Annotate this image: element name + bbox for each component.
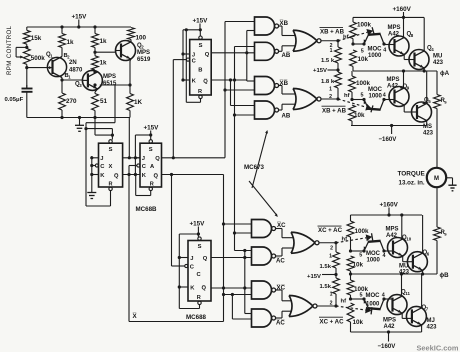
svg-text:M: M xyxy=(434,176,439,182)
svg-text:Q: Q xyxy=(155,156,160,162)
svg-text:4: 4 xyxy=(383,253,386,259)
svg-text:ϕA: ϕA xyxy=(440,70,450,77)
svg-text:Q̅: Q̅ xyxy=(203,78,208,85)
svg-text:+15V: +15V xyxy=(190,221,206,228)
svg-text:11: 11 xyxy=(405,291,410,296)
svg-text:J: J xyxy=(100,156,103,162)
svg-text:5: 5 xyxy=(361,93,364,99)
svg-text:hf: hf xyxy=(344,93,350,99)
svg-text:J: J xyxy=(190,256,193,262)
svg-text:MOC: MOC xyxy=(366,293,381,299)
svg-text:1000: 1000 xyxy=(366,302,380,308)
svg-text:500k: 500k xyxy=(31,55,46,62)
svg-text:s: s xyxy=(444,232,447,237)
svg-text:XC + AC: XC + AC xyxy=(318,227,343,234)
svg-text:C: C xyxy=(192,59,197,65)
svg-text:+15V: +15V xyxy=(72,14,88,21)
svg-text:5: 5 xyxy=(361,49,364,55)
svg-text:Q̅: Q̅ xyxy=(154,173,159,180)
svg-text:+15V: +15V xyxy=(307,274,321,280)
svg-text:K: K xyxy=(142,173,147,179)
svg-text:MPS: MPS xyxy=(137,50,150,56)
svg-text:Q: Q xyxy=(203,256,208,262)
svg-text:SeekIC.com: SeekIC.com xyxy=(417,344,459,352)
svg-text:C: C xyxy=(100,164,105,170)
svg-text:423: 423 xyxy=(433,60,444,66)
svg-text:MC688: MC688 xyxy=(186,314,207,321)
svg-text:1: 1 xyxy=(330,292,333,298)
svg-text:10k: 10k xyxy=(353,319,364,326)
svg-text:1K: 1K xyxy=(134,99,143,106)
svg-text:MS: MS xyxy=(423,124,432,130)
svg-text:S: S xyxy=(149,147,153,153)
svg-text:C: C xyxy=(197,272,202,278)
svg-text:s: s xyxy=(444,100,447,105)
svg-text:MPS: MPS xyxy=(387,77,400,83)
svg-text:K: K xyxy=(192,79,197,85)
svg-text:AB: AB xyxy=(282,113,291,120)
svg-text:8: 8 xyxy=(411,33,414,38)
svg-text:ϕB: ϕB xyxy=(440,272,450,279)
svg-text:R: R xyxy=(197,295,201,301)
svg-text:J: J xyxy=(192,52,195,58)
svg-text:2: 2 xyxy=(330,301,333,307)
svg-text:A42: A42 xyxy=(387,84,399,90)
svg-text:R: R xyxy=(109,181,113,187)
svg-text:A̅C: A̅C xyxy=(276,258,285,265)
svg-text:270: 270 xyxy=(66,98,77,105)
svg-text:2: 2 xyxy=(330,246,333,252)
svg-text:13.oz. in.: 13.oz. in. xyxy=(399,180,425,187)
svg-text:S: S xyxy=(198,244,202,250)
svg-text:10k: 10k xyxy=(354,112,365,119)
svg-text:B: B xyxy=(198,68,202,74)
svg-text:+15V: +15V xyxy=(144,125,160,132)
svg-text:MPS: MPS xyxy=(103,74,116,80)
svg-text:5: 5 xyxy=(428,99,431,104)
svg-text:X: X xyxy=(109,164,113,170)
svg-text:MPS: MPS xyxy=(383,318,396,324)
svg-text:MU: MU xyxy=(433,54,442,60)
svg-text:4: 4 xyxy=(382,293,385,299)
svg-text:RPM CONTROL: RPM CONTROL xyxy=(6,25,13,75)
svg-text:+160V: +160V xyxy=(380,202,399,209)
svg-text:TORQUE: TORQUE xyxy=(398,171,426,178)
svg-text:1.5 k: 1.5 k xyxy=(321,58,335,64)
svg-text:4: 4 xyxy=(431,47,434,52)
svg-text:4: 4 xyxy=(383,93,386,99)
svg-text:15k: 15k xyxy=(31,35,42,42)
svg-text:MOC: MOC xyxy=(366,251,381,257)
svg-text:MOC: MOC xyxy=(368,87,383,93)
svg-text:2: 2 xyxy=(141,45,144,50)
svg-text:K: K xyxy=(100,173,105,179)
svg-text:4: 4 xyxy=(383,48,386,54)
svg-text:hf: hf xyxy=(341,299,347,305)
svg-text:1k: 1k xyxy=(100,60,108,67)
svg-text:MPS: MPS xyxy=(388,25,401,31)
svg-text:423: 423 xyxy=(423,131,434,137)
svg-text:6: 6 xyxy=(427,252,430,257)
svg-text:C: C xyxy=(190,265,195,271)
svg-text:Q̅: Q̅ xyxy=(202,285,207,292)
svg-text:51: 51 xyxy=(100,98,108,105)
svg-text:100k: 100k xyxy=(357,22,372,29)
svg-text:423: 423 xyxy=(427,325,438,331)
svg-text:C: C xyxy=(142,164,147,170)
svg-text:5: 5 xyxy=(359,253,362,259)
svg-text:5: 5 xyxy=(360,293,363,299)
svg-text:10k: 10k xyxy=(353,262,364,269)
svg-text:XB + AB: XB + AB xyxy=(320,29,345,36)
svg-text:1.5k: 1.5k xyxy=(320,264,332,270)
svg-text:1000: 1000 xyxy=(367,258,381,264)
svg-text:+160V: +160V xyxy=(393,6,412,13)
svg-text:−160V: −160V xyxy=(378,343,397,350)
svg-text:K: K xyxy=(190,286,195,292)
svg-text:1: 1 xyxy=(329,87,332,93)
svg-text:4870: 4870 xyxy=(69,68,83,74)
svg-text:MC68B: MC68B xyxy=(136,206,158,213)
svg-text:XC + AC: XC + AC xyxy=(320,318,345,325)
svg-text:100k: 100k xyxy=(356,80,371,87)
svg-text:MJ: MJ xyxy=(427,318,435,324)
svg-text:Q̅: Q̅ xyxy=(114,173,119,180)
svg-text:MPS: MPS xyxy=(386,227,399,233)
svg-text:A: A xyxy=(150,164,155,170)
svg-text:1000: 1000 xyxy=(368,53,382,59)
svg-text:2: 2 xyxy=(329,94,332,100)
svg-text:1k: 1k xyxy=(100,38,108,45)
svg-text:XB + AB: XB + AB xyxy=(322,107,347,114)
svg-text:S: S xyxy=(109,147,113,153)
svg-text:MOC: MOC xyxy=(368,47,383,53)
svg-text:A42: A42 xyxy=(384,324,396,330)
svg-text:100k: 100k xyxy=(355,228,370,235)
svg-text:R: R xyxy=(150,181,154,187)
svg-text:−160V: −160V xyxy=(379,136,398,143)
svg-text:1000: 1000 xyxy=(369,94,383,100)
svg-text:AB̅: AB̅ xyxy=(282,52,291,59)
svg-text:1.5k: 1.5k xyxy=(320,284,332,290)
svg-text:R: R xyxy=(198,89,202,95)
svg-text:+15V: +15V xyxy=(313,68,327,74)
svg-text:100: 100 xyxy=(136,35,147,42)
svg-text:A̅C̅: A̅C̅ xyxy=(276,320,285,327)
svg-text:MC673: MC673 xyxy=(244,164,265,171)
svg-text:1k: 1k xyxy=(67,39,75,46)
svg-text:S: S xyxy=(199,43,203,49)
svg-text:+15V: +15V xyxy=(193,18,209,25)
svg-text:3: 3 xyxy=(79,83,82,88)
svg-text:6519: 6519 xyxy=(137,57,151,63)
svg-text:1: 1 xyxy=(68,75,71,80)
svg-text:1: 1 xyxy=(330,48,333,54)
svg-text:0.05μF: 0.05μF xyxy=(5,97,24,103)
svg-text:10k: 10k xyxy=(358,56,369,63)
svg-text:2N: 2N xyxy=(69,60,77,66)
svg-text:10: 10 xyxy=(406,237,411,242)
svg-text:2: 2 xyxy=(67,55,70,60)
svg-text:X̅: X̅ xyxy=(133,313,138,320)
svg-text:MU: MU xyxy=(399,264,408,270)
svg-text:1.8 k: 1.8 k xyxy=(321,79,335,85)
svg-text:1: 1 xyxy=(329,254,332,260)
svg-text:7: 7 xyxy=(426,307,429,312)
svg-text:9: 9 xyxy=(407,86,410,91)
svg-text:J: J xyxy=(142,156,145,162)
svg-text:Q: Q xyxy=(205,52,210,58)
